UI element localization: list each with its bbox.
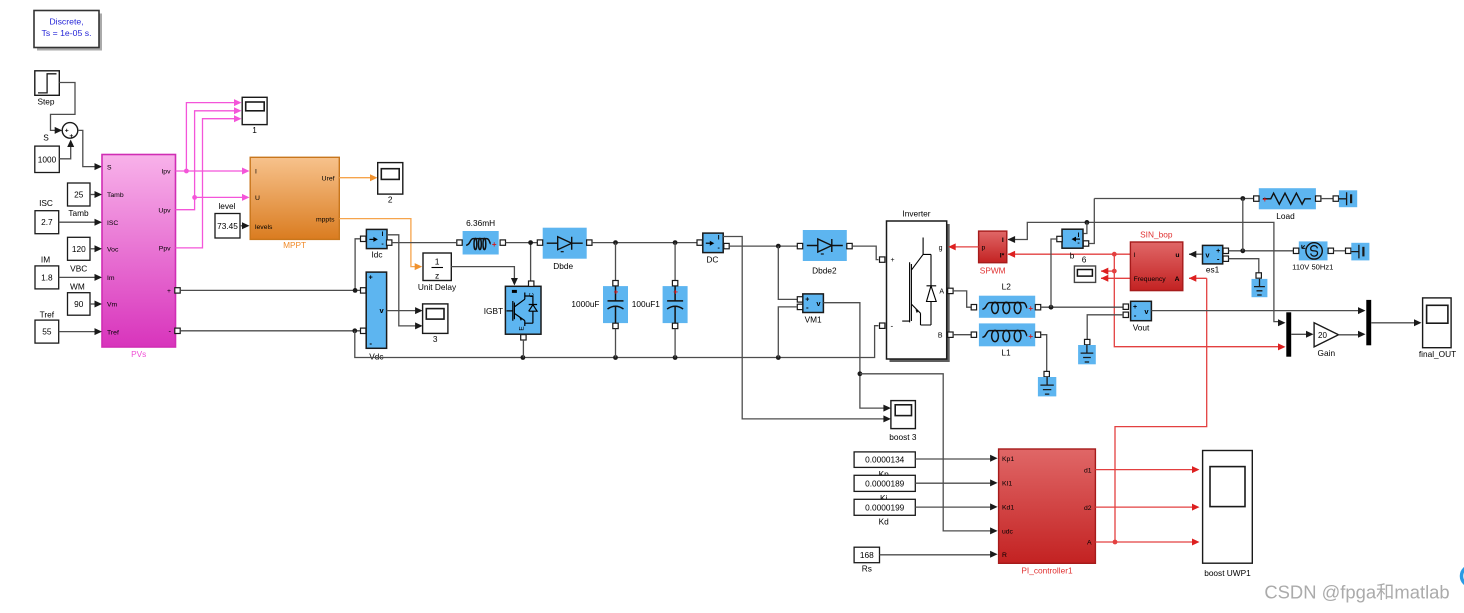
svg-text:+: +: [614, 288, 619, 297]
wire SIN_bop I to SPWM I* (red): [1008, 251, 1131, 258]
label MPPT: [283, 240, 306, 250]
port IGBT E bottom: [521, 335, 526, 340]
port es1 - right: [1223, 256, 1228, 261]
terminator after Load: [1339, 190, 1357, 207]
label S (sum): [43, 133, 49, 143]
svg-text:mppts: mppts: [316, 216, 335, 223]
wire SIN_bop Frequency to display input2: [1101, 275, 1131, 282]
wire PI A to boost UWP1 (red): [1095, 539, 1199, 546]
svg-text:20: 20: [1318, 331, 1327, 340]
label IM: [41, 255, 50, 265]
current measurement b6: [1062, 229, 1083, 248]
svg-text:55: 55: [42, 327, 52, 337]
ground below Vout: [1078, 345, 1096, 364]
svg-text:6.36mH: 6.36mH: [466, 218, 495, 228]
svg-text:110V 50Hz1: 110V 50Hz1: [1292, 262, 1333, 271]
label SIN_bop: [1140, 230, 1173, 240]
svg-text:Tref: Tref: [40, 310, 55, 320]
current measurement Idc: [366, 229, 387, 259]
svg-text:SPWM: SPWM: [980, 265, 1006, 275]
svg-text:L2: L2: [1002, 282, 1012, 292]
port IGBT C top: [529, 281, 534, 286]
svg-text:I*: I*: [1000, 252, 1005, 259]
arrow into PI udc: [990, 527, 998, 534]
svg-text:+: +: [369, 275, 373, 282]
svg-text:PVs: PVs: [131, 349, 146, 359]
svg-text:S: S: [43, 133, 49, 143]
wire 120 to Voc: [90, 245, 102, 252]
scope block 2: [378, 163, 403, 205]
svg-text:100uF1: 100uF1: [632, 299, 661, 309]
port 100uF1 top: [672, 281, 677, 286]
label IGBT: [484, 306, 503, 316]
label Load: [1276, 211, 1295, 221]
port Idc left: [361, 236, 366, 241]
port L1 left: [971, 332, 976, 337]
svg-text:Rs: Rs: [862, 564, 872, 574]
svg-text:+: +: [69, 133, 73, 140]
svg-text:+: +: [1262, 195, 1267, 204]
label PVs: [131, 349, 146, 359]
subsystem Inverter (universal bridge): [887, 221, 950, 362]
port VM1 + input: [797, 297, 802, 302]
wire PI d2 to boost UWP1 (red): [1095, 504, 1199, 511]
label level: [218, 201, 235, 211]
port Idc right: [387, 240, 392, 245]
svg-text:MPPT: MPPT: [283, 240, 306, 250]
label 110V 50Hz1: [1292, 262, 1333, 271]
svg-text:1000: 1000: [38, 154, 57, 164]
svg-text:Ts = 1e-05 s.: Ts = 1e-05 s.: [42, 28, 92, 38]
svg-text:Frequency: Frequency: [1134, 276, 1167, 283]
wire Vout - to ground: [1087, 315, 1123, 340]
label 6.36mH: [466, 218, 495, 228]
svg-text:+: +: [1133, 304, 1137, 311]
port inverter +: [880, 257, 885, 262]
constant block 0.0000134: [854, 452, 915, 468]
wire PVs + to Idc and Vdc +: [180, 239, 360, 293]
diode Dbde2: [803, 230, 847, 261]
constant block 25: [68, 183, 91, 206]
display block (two-line): [1074, 266, 1095, 282]
wire Idc I output to scope3 input2: [387, 235, 416, 326]
port es1 + right: [1223, 248, 1228, 253]
label Inverter: [902, 209, 930, 219]
terminator after 110V: [1351, 243, 1369, 261]
svg-text:p: p: [982, 245, 986, 252]
subsystem PI_controller1 (red): [999, 449, 1096, 563]
label ISC: [39, 198, 53, 208]
port Vdc - input: [361, 328, 366, 333]
svg-text:Gain: Gain: [1318, 348, 1336, 358]
svg-text:Ppv: Ppv: [159, 246, 171, 253]
label SPWM: [980, 265, 1006, 275]
label 100uF1: [632, 299, 661, 309]
port 100uF1 bottom: [672, 323, 677, 328]
svg-text:Tamb: Tamb: [107, 192, 124, 199]
svg-text:Tamb: Tamb: [68, 208, 89, 218]
port 110V right: [1328, 248, 1333, 253]
svg-text:Vm: Vm: [107, 302, 118, 309]
wire L2 to Vout + and b6: [1041, 239, 1123, 310]
wire mux1 output to Gain: [1291, 331, 1313, 338]
svg-text:6: 6: [1082, 255, 1087, 265]
label b: [1070, 251, 1075, 261]
wire PI d1 to boost UWP1 (red): [1095, 466, 1199, 473]
wire VM1 - to bus: [778, 307, 797, 358]
port Load left: [1254, 196, 1259, 201]
svg-text:+: +: [891, 257, 895, 264]
source block Step: [35, 71, 60, 107]
wire red branch to display input1: [1101, 268, 1117, 275]
svg-text:Vout: Vout: [1133, 323, 1150, 333]
svg-text:-: -: [1217, 254, 1220, 263]
subsystem SPWM (red): [979, 231, 1007, 263]
constant block 0.0000189: [854, 475, 915, 491]
port PVs - output: [175, 328, 180, 333]
wire Upv to scope1 and MPPT U: [176, 107, 250, 209]
diode Dbde: [543, 228, 587, 259]
resistor Load: [1259, 188, 1316, 209]
svg-text:168: 168: [860, 550, 874, 560]
svg-text:z: z: [435, 270, 439, 280]
svg-text:ISC: ISC: [107, 220, 118, 227]
port VM1 - input: [797, 304, 802, 309]
svg-text:level: level: [218, 201, 235, 211]
constant block 1000: [35, 146, 60, 172]
port Vout + input: [1123, 304, 1128, 309]
port Vdc + input: [361, 288, 366, 293]
powergui block Discrete Ts=1e-05: [34, 11, 102, 51]
svg-text:Dbde: Dbde: [553, 261, 573, 271]
wire 199 to Kd1: [915, 503, 997, 510]
ground below L1: [1038, 377, 1056, 396]
port ground Vout top: [1085, 339, 1090, 344]
svg-text:+: +: [65, 128, 69, 135]
port 110V left: [1293, 248, 1298, 253]
label VBC: [70, 264, 87, 274]
wire 110V to terminator2: [1334, 250, 1346, 252]
wire 1000uF bottom to bus: [615, 329, 617, 358]
wire PVs - to Vdc - and bottom bus: [180, 328, 360, 333]
svg-text:d2: d2: [1084, 505, 1092, 512]
port Dbde2 left: [797, 243, 802, 248]
svg-text:u: u: [1175, 252, 1179, 259]
svg-text:ISC: ISC: [39, 198, 53, 208]
wire es1 v to SIN_bop u: [1189, 251, 1202, 258]
inductor L1: [979, 323, 1035, 346]
port inverter B: [948, 332, 953, 337]
label Ki: [880, 493, 888, 503]
subsystem PVs (PV array, magenta): [102, 155, 176, 348]
voltage measurement Vout: [1131, 301, 1152, 332]
svg-text:levels: levels: [255, 224, 273, 231]
svg-text:1: 1: [252, 125, 257, 135]
svg-text:25: 25: [74, 190, 84, 200]
constant block 0.0000199: [854, 499, 915, 515]
svg-text:Step: Step: [37, 97, 54, 107]
wire Unit Delay to IGBT gate: [451, 267, 518, 286]
wire 100uF1 bottom to bus: [674, 329, 676, 358]
svg-text:-: -: [369, 339, 372, 348]
port Dbde left: [537, 240, 542, 245]
constant block 2.7: [35, 211, 59, 234]
svg-text:1000uF: 1000uF: [571, 299, 599, 309]
svg-text:Voc: Voc: [107, 247, 119, 254]
svg-text:-: -: [1134, 311, 1137, 320]
svg-text:B: B: [938, 332, 943, 339]
wire 189 to KI1: [915, 479, 997, 486]
label Unit Delay: [418, 282, 457, 292]
svg-text:Dbde2: Dbde2: [812, 266, 837, 276]
ground below es1: [1252, 279, 1268, 297]
mux1 (2-input): [1286, 312, 1291, 356]
wire 55 to Tref: [59, 328, 102, 335]
svg-text:1.8: 1.8: [41, 272, 53, 282]
scope block 1: [242, 97, 267, 135]
scope block boost UWP1: [1203, 451, 1253, 579]
svg-text:C: C: [528, 292, 535, 297]
wire Step to Sum: [51, 83, 76, 134]
wire 1.8 to Im: [59, 274, 102, 281]
label L2: [1002, 282, 1012, 292]
port ground L1 top: [1044, 371, 1049, 376]
constant block 55: [35, 320, 59, 343]
svg-text:+: +: [167, 288, 171, 295]
svg-text:1: 1: [435, 257, 440, 267]
svg-text:Vdc: Vdc: [369, 351, 383, 361]
port terminator1 left: [1333, 196, 1338, 201]
svg-text:DC: DC: [706, 255, 718, 265]
gain block 20: [1314, 323, 1338, 347]
svg-text:IGBT: IGBT: [484, 306, 503, 316]
scope block final_OUT: [1419, 298, 1456, 359]
port Vout - input: [1123, 312, 1128, 317]
svg-text:S: S: [107, 164, 112, 171]
svg-text:Kp1: Kp1: [1002, 456, 1014, 463]
label Dbde2: [812, 266, 837, 276]
label Rs: [862, 564, 872, 574]
svg-text:Im: Im: [107, 275, 115, 282]
svg-text:A: A: [1175, 276, 1180, 283]
svg-text:A: A: [1087, 539, 1092, 546]
svg-text:IM: IM: [41, 255, 50, 265]
wire Ipv to scope1 and MPPT I: [176, 99, 250, 174]
wire Gain to mux2 input2: [1339, 331, 1366, 338]
voltage measurement Vdc: [366, 272, 386, 361]
constant block 168: [854, 547, 879, 563]
port 1000uF top: [613, 281, 618, 286]
svg-text:boost 3: boost 3: [889, 432, 917, 442]
label L1: [1001, 347, 1011, 357]
svg-text:+: +: [492, 240, 497, 249]
svg-text:PI_controller1: PI_controller1: [1021, 566, 1073, 576]
port 1000uF bottom: [613, 323, 618, 328]
wire DC to Dbde2 with VM1 branch: [729, 244, 797, 300]
svg-text:Discrete,: Discrete,: [49, 17, 83, 27]
sum block S (adder): [62, 123, 78, 141]
svg-text:b: b: [1070, 251, 1075, 261]
svg-text:-: -: [891, 322, 894, 331]
label Dbde: [553, 261, 573, 271]
svg-text:A: A: [939, 289, 944, 296]
wire DC I output to boost3 input2: [723, 237, 885, 419]
svg-text:Load: Load: [1276, 211, 1295, 221]
wire 73.45 to levels: [240, 222, 250, 229]
svg-text:Idc: Idc: [371, 250, 382, 260]
wire current meas 6 to SPWM I and mux: [1008, 220, 1286, 326]
wire 6.36mH to Dbde with IGBT branch: [506, 240, 539, 281]
svg-text:U: U: [255, 195, 260, 202]
wire bottom dc bus (PVs - to inverter -): [355, 326, 879, 360]
label 1000uF: [571, 299, 599, 309]
port ground es1 top: [1256, 273, 1261, 278]
svg-text:0.0000134: 0.0000134: [865, 455, 905, 465]
wire Dbde to DC with capacitor branches: [592, 240, 697, 280]
capacitor 100uF1: [663, 286, 688, 323]
wire Sum to PVs S input: [78, 130, 102, 170]
scope block 3: [415, 304, 448, 344]
wire mppts to Unit Delay (orange): [339, 219, 422, 271]
svg-text:73.45: 73.45: [217, 221, 238, 231]
svg-text:final_OUT: final_OUT: [1419, 349, 1456, 359]
svg-text:Tref: Tref: [107, 329, 119, 336]
svg-text:I: I: [382, 231, 384, 238]
svg-text:Ipv: Ipv: [161, 169, 171, 176]
constant block 1.8: [35, 266, 59, 289]
wire 134 to Kp1: [915, 455, 997, 462]
label 6: [1082, 255, 1087, 265]
label Tamb: [68, 208, 89, 218]
svg-text:WM: WM: [70, 282, 85, 292]
svg-text:d1: d1: [1084, 467, 1092, 474]
wire 2.7 to ISC: [59, 219, 102, 226]
wire Load to terminator1: [1321, 198, 1333, 200]
wire Vout v to mux2 input1: [1151, 307, 1365, 314]
svg-text:Uref: Uref: [322, 175, 335, 182]
svg-text:0.0000199: 0.0000199: [865, 502, 905, 512]
inductor L2: [979, 296, 1035, 318]
label Tref: [40, 310, 55, 320]
port L2 right: [1035, 305, 1040, 310]
port b6 right: [1083, 241, 1088, 246]
wire top net b6 to Load: [1094, 196, 1253, 201]
mux2 (2-input): [1366, 300, 1371, 345]
port 6.36mH right: [500, 240, 505, 245]
wire red vertical to mux (from SIN_bop I net): [1114, 254, 1285, 350]
svg-text:I: I: [1078, 232, 1080, 239]
wire PI A to SIN_bop A (red): [1115, 275, 1207, 542]
wire inverter B to L1: [953, 334, 971, 336]
svg-text:Inverter: Inverter: [902, 209, 930, 219]
port b6 left: [1057, 236, 1062, 241]
wire 25 to Tamb: [90, 191, 102, 198]
ac source 110V 50Hz1: [1299, 241, 1328, 260]
svg-text:+: +: [673, 288, 678, 297]
label Kp: [879, 469, 890, 479]
svg-text:VM1: VM1: [805, 315, 822, 325]
port Dbde2 right: [847, 243, 852, 248]
unit delay block: [423, 253, 451, 281]
wire Uref to scope2 (orange): [339, 174, 377, 181]
current measurement DC: [703, 233, 723, 264]
label WM: [70, 282, 85, 292]
wire Dbde2 to inverter +: [852, 246, 878, 260]
watermark logo circle: [1462, 566, 1464, 586]
wire b6 I output up: [1084, 222, 1087, 233]
svg-text:I: I: [718, 235, 720, 242]
port inverter A: [948, 288, 953, 293]
port Dbde right: [587, 240, 592, 245]
wire 90 to Vm: [90, 301, 102, 308]
svg-text:KI1: KI1: [1002, 481, 1012, 488]
svg-text:+: +: [1028, 304, 1033, 313]
svg-text:+: +: [1028, 332, 1033, 341]
wire L1 to ground: [1041, 335, 1047, 372]
wire es1 - to ground: [1229, 259, 1259, 273]
port L1 right: [1035, 332, 1040, 337]
svg-text:CSDN @fpga和matlab: CSDN @fpga和matlab: [1264, 582, 1449, 603]
watermark CSDN: [1264, 582, 1449, 603]
subsystem MPPT (orange): [250, 157, 339, 239]
port DC left: [697, 240, 702, 245]
wire Vdc v output to scope3 input1: [387, 310, 416, 312]
svg-text:Kd: Kd: [879, 516, 890, 526]
svg-text:I: I: [1134, 252, 1136, 259]
svg-text:boost UWP1: boost UWP1: [1204, 568, 1251, 578]
igbt block IGBT: [505, 286, 541, 334]
wire Idc to 6.36mH: [392, 242, 457, 244]
svg-text:Unit Delay: Unit Delay: [418, 282, 457, 292]
scope block boost 3: [883, 401, 916, 442]
constant block 73.45: [215, 214, 240, 239]
port terminator2 left: [1346, 248, 1351, 253]
voltage measurement VM1: [803, 294, 824, 325]
svg-text:L1: L1: [1001, 347, 1011, 357]
port Load right: [1316, 196, 1321, 201]
wire top net vertical: [1242, 199, 1244, 251]
wire b6 right to top net: [1089, 199, 1095, 244]
wire Ppv to scope1: [176, 115, 242, 248]
constant block 120: [68, 237, 91, 260]
svg-text:SIN_bop: SIN_bop: [1140, 230, 1173, 240]
inductor 6.36mH: [463, 231, 499, 255]
wire SPWM p to inverter g (red): [948, 243, 978, 250]
wire 1000 to Sum: [59, 140, 74, 159]
port inverter -: [880, 323, 885, 328]
svg-text:E: E: [519, 326, 526, 331]
svg-text:R: R: [1002, 552, 1007, 559]
svg-text:2: 2: [388, 195, 393, 205]
svg-text:-: -: [806, 303, 809, 312]
svg-text:Kd1: Kd1: [1002, 505, 1014, 512]
port 6.36mH left: [457, 240, 462, 245]
wire es1 + to 110V source: [1229, 248, 1294, 253]
label PI_controller1: [1021, 566, 1073, 576]
label Kd: [879, 516, 890, 526]
constant block 90: [68, 293, 91, 316]
subsystem SIN_bop (red): [1130, 242, 1182, 291]
svg-text:VBC: VBC: [70, 264, 87, 274]
svg-text:udc: udc: [1002, 529, 1014, 536]
svg-text:90: 90: [74, 299, 84, 309]
port DC right: [724, 243, 729, 248]
wire VM1 v to boost3 and PI udc: [823, 303, 991, 531]
svg-text:I: I: [255, 169, 257, 176]
svg-text:0.0000189: 0.0000189: [865, 478, 905, 488]
label Gain: [1318, 348, 1336, 358]
svg-text:2.7: 2.7: [41, 217, 53, 227]
